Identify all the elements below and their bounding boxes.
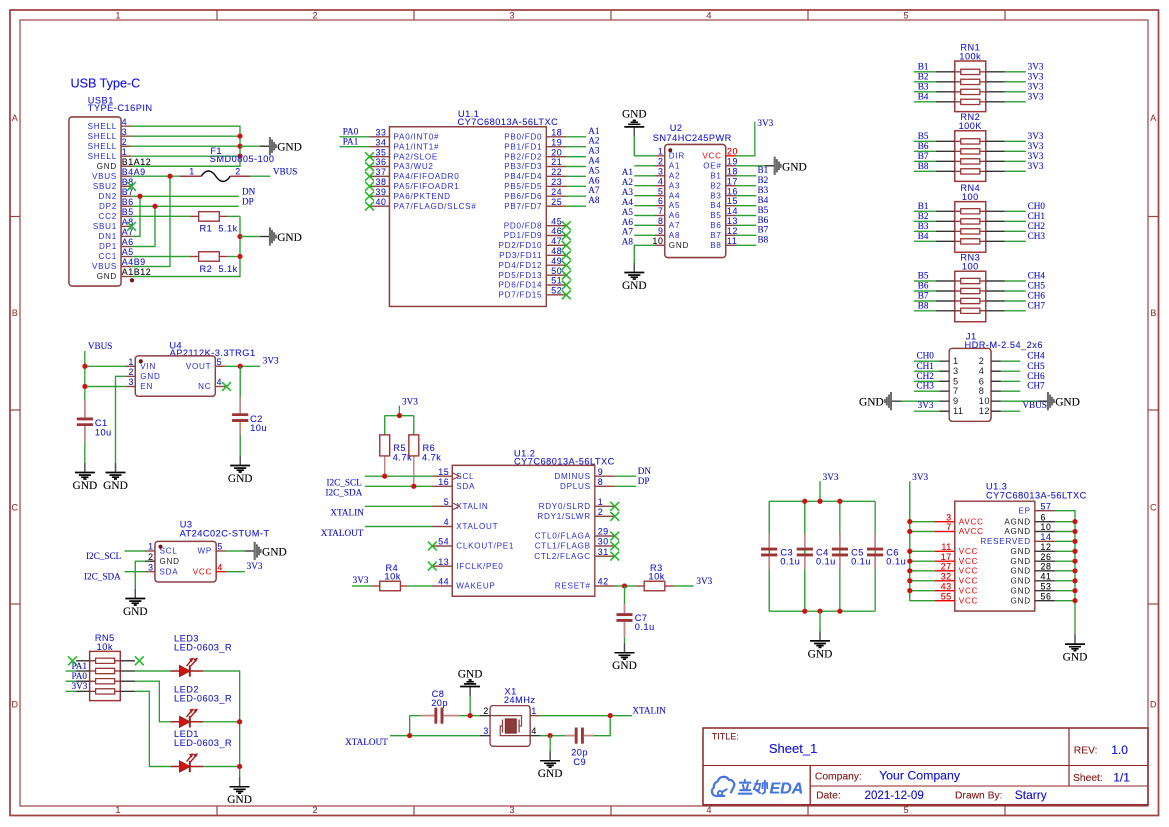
net label 3V3 bbox=[1028, 72, 1044, 82]
svg-text:3V3: 3V3 bbox=[402, 396, 418, 406]
svg-text:52: 52 bbox=[551, 286, 562, 296]
svg-text:Your Company: Your Company bbox=[879, 769, 961, 783]
svg-text:XTALIN: XTALIN bbox=[456, 502, 488, 511]
svg-text:Drawn By:: Drawn By: bbox=[955, 791, 1003, 802]
resistor R1 5.1k (CC2 pulldown) bbox=[131, 212, 240, 234]
svg-text:XTALIN: XTALIN bbox=[632, 705, 666, 715]
svg-text:A7: A7 bbox=[122, 227, 134, 237]
net label 3V3 bbox=[1028, 82, 1044, 92]
wire CH2 into J1 bbox=[914, 380, 939, 382]
header J1 HDR-M-2.54_2x6 bbox=[939, 332, 1043, 422]
svg-text:43: 43 bbox=[941, 581, 952, 591]
svg-text:VBUS: VBUS bbox=[273, 167, 298, 177]
svg-text:5: 5 bbox=[217, 357, 223, 367]
svg-text:B3: B3 bbox=[918, 82, 929, 92]
net label 3V3 bbox=[1028, 141, 1044, 151]
svg-text:PD3/FD11: PD3/FD11 bbox=[499, 251, 542, 260]
net label B8 bbox=[918, 300, 929, 310]
svg-text:A3: A3 bbox=[622, 187, 634, 197]
svg-text:20p: 20p bbox=[571, 747, 588, 757]
svg-text:29: 29 bbox=[598, 527, 609, 537]
net label B4 bbox=[918, 231, 929, 241]
svg-text:PA1: PA1 bbox=[72, 661, 88, 671]
wire I2C_SDA into U3 bbox=[125, 571, 146, 573]
no-connect marks U1.2 left bbox=[428, 542, 437, 571]
ic U4 AP2112K-3.3TRG1 bbox=[126, 340, 256, 396]
ground flag GND at J1 left bbox=[859, 392, 901, 410]
svg-text:A6: A6 bbox=[622, 217, 634, 227]
svg-text:GND: GND bbox=[622, 109, 647, 121]
svg-text:DN: DN bbox=[242, 186, 256, 196]
svg-text:CY7C68013A-56LTXC: CY7C68013A-56LTXC bbox=[458, 117, 559, 127]
wire CH0 into J1 bbox=[914, 360, 939, 362]
wire 3V3 from RN2 bbox=[1005, 150, 1026, 152]
svg-text:PB6/FD6: PB6/FD6 bbox=[504, 192, 542, 201]
wire LED cathodes to ground trunk bbox=[203, 671, 240, 777]
svg-text:B5: B5 bbox=[918, 131, 929, 141]
svg-text:10: 10 bbox=[979, 396, 990, 406]
wire 3V3 from RN2 bbox=[1005, 140, 1026, 142]
wire RN5 row4 to LED1 bbox=[135, 691, 171, 766]
junction dots on R trunk bbox=[238, 234, 243, 259]
svg-text:VBUS: VBUS bbox=[88, 341, 113, 351]
svg-text:5: 5 bbox=[444, 497, 450, 507]
svg-text:24MHz: 24MHz bbox=[504, 695, 536, 705]
net label I2C_SDA at U1.2 bbox=[326, 488, 363, 498]
net label B8 bbox=[918, 161, 929, 171]
junction dot DN bbox=[138, 194, 143, 199]
svg-text:GND: GND bbox=[622, 280, 647, 292]
wire capacitor bank to ground bbox=[819, 611, 821, 631]
net label B1 bbox=[918, 201, 929, 211]
wire U3 WP to ground flag bbox=[226, 550, 245, 552]
wire B1 into RN1 bbox=[914, 71, 936, 73]
net label DN at U1.2 bbox=[638, 466, 652, 476]
svg-text:1: 1 bbox=[953, 356, 959, 366]
connector USB1 TYPE-C16PIN bbox=[69, 95, 153, 286]
svg-text:C: C bbox=[11, 503, 18, 513]
wire CH0 from RN4 bbox=[1005, 210, 1026, 212]
svg-text:15: 15 bbox=[727, 196, 738, 206]
net label XTALIN at crystal bbox=[632, 705, 666, 715]
svg-text:GND: GND bbox=[1011, 586, 1031, 595]
svg-text:8: 8 bbox=[658, 216, 664, 226]
wire GND to J1 pin 9 bbox=[901, 400, 939, 402]
net label PA0 bbox=[343, 127, 359, 137]
resistor R6 4.7k bbox=[409, 435, 441, 486]
net label PA0 at RN5 bbox=[72, 671, 88, 681]
net label I2C_SCL at U1.2 bbox=[327, 478, 363, 488]
svg-text:0.1u: 0.1u bbox=[635, 622, 655, 632]
svg-text:3V3: 3V3 bbox=[247, 561, 263, 571]
svg-text:56: 56 bbox=[1041, 591, 1052, 601]
wire CH7 from RN3 bbox=[1005, 310, 1026, 312]
EasyEDA logo bbox=[712, 777, 803, 798]
svg-text:1: 1 bbox=[189, 166, 195, 176]
net label B2 bbox=[918, 211, 929, 221]
wire VBUS from J1 pin 12 bbox=[1001, 410, 1020, 412]
net label B6 bbox=[918, 141, 929, 151]
net label 3V3 at J1 left bbox=[918, 400, 934, 410]
ground flag GND (CC pulldowns) bbox=[240, 227, 302, 245]
wire crystal pin4 to C9 and ground bbox=[540, 735, 566, 737]
svg-text:B3: B3 bbox=[758, 185, 769, 195]
svg-text:8: 8 bbox=[979, 386, 985, 396]
power label 3V3 at R3 bbox=[696, 576, 712, 586]
svg-text:18: 18 bbox=[727, 167, 738, 177]
svg-text:3V3: 3V3 bbox=[1028, 82, 1044, 92]
wire B7 into RN2 bbox=[914, 160, 936, 162]
ground symbol below capacitor bank bbox=[808, 631, 833, 660]
wire B5 into RN2 bbox=[914, 140, 936, 142]
svg-text:Company:: Company: bbox=[815, 771, 862, 782]
junction dot 3V3 R5R6 bbox=[397, 413, 402, 418]
svg-text:5: 5 bbox=[658, 186, 664, 196]
wire CH0 into J1 bbox=[914, 360, 939, 362]
ground flag GND at U3 WP bbox=[245, 542, 287, 560]
ground symbol below C2 bbox=[228, 456, 253, 485]
net label B4 bbox=[918, 231, 929, 241]
capacitor C2 10u bbox=[232, 366, 267, 435]
svg-text:100: 100 bbox=[962, 192, 979, 202]
svg-text:TITLE:: TITLE: bbox=[712, 731, 739, 741]
wire B6 into RN2 bbox=[914, 150, 936, 152]
svg-text:DP: DP bbox=[638, 476, 650, 486]
svg-text:2: 2 bbox=[483, 706, 489, 716]
wire DN from U1.2 DMINUS bbox=[615, 475, 636, 477]
net label DP bbox=[242, 196, 254, 206]
ground flag GND (USB shell) bbox=[240, 137, 302, 155]
net label CH6 bbox=[1028, 291, 1046, 301]
svg-text:15: 15 bbox=[438, 467, 449, 477]
ground symbol below C1 bbox=[73, 463, 98, 492]
svg-text:A6: A6 bbox=[122, 237, 134, 247]
wire I2C_SDA net with R6 bbox=[365, 485, 432, 487]
capacitor C3 0.1u bbox=[761, 534, 800, 570]
net label CH4 bbox=[1028, 271, 1046, 281]
net label VBUS at J1 bbox=[1022, 400, 1047, 410]
svg-text:CH7: CH7 bbox=[1028, 300, 1046, 310]
svg-text:CLKOUT/PE1: CLKOUT/PE1 bbox=[456, 542, 514, 551]
svg-text:CH4: CH4 bbox=[1027, 351, 1045, 361]
wire B8 into RN3 bbox=[914, 310, 936, 312]
net label 3V3 at RN5 bbox=[72, 681, 88, 691]
junction dot XTALOUT bbox=[407, 733, 412, 738]
junction dots on shell trunk bbox=[238, 134, 243, 159]
no-connect marks on U1.1 PA2-PA7 bbox=[365, 152, 374, 210]
ground symbol below C1 bbox=[73, 463, 98, 492]
svg-text:VCC: VCC bbox=[959, 577, 978, 586]
svg-text:EN: EN bbox=[140, 382, 153, 391]
ic U1.2 CY7C68013A-56LTXC (control block) bbox=[432, 448, 615, 596]
svg-text:3V3: 3V3 bbox=[696, 576, 712, 586]
wire PA1 into U1.1 bbox=[340, 146, 370, 148]
wire U2 DIR to ground bbox=[634, 136, 655, 156]
crystal X1 24MHz bbox=[480, 686, 540, 746]
wire XTALOUT into U1.2 bbox=[365, 526, 432, 528]
svg-text:1: 1 bbox=[531, 706, 537, 716]
ground symbol below U2 GND bbox=[622, 263, 647, 292]
wire B3 into RN4 bbox=[914, 230, 936, 232]
svg-text:EDA: EDA bbox=[770, 780, 804, 797]
svg-text:PA6/PKTEND: PA6/PKTEND bbox=[394, 192, 451, 201]
net label B7 bbox=[918, 291, 929, 301]
svg-text:12: 12 bbox=[979, 406, 990, 416]
svg-text:DIR: DIR bbox=[669, 152, 685, 161]
net label B7 bbox=[918, 151, 929, 161]
wire C2 to ground bbox=[239, 435, 241, 456]
svg-text:B6: B6 bbox=[918, 141, 929, 151]
wire B2 into RN4 bbox=[914, 220, 936, 222]
connector USB1 TYPE-C16PIN bbox=[69, 95, 153, 286]
svg-text:3: 3 bbox=[509, 10, 514, 20]
wire B2 into RN1 bbox=[914, 81, 936, 83]
junction dots on VBUS rail bbox=[82, 364, 87, 389]
svg-text:A1B12: A1B12 bbox=[122, 267, 151, 277]
svg-text:PA5/FIFOADR1: PA5/FIFOADR1 bbox=[394, 182, 460, 191]
svg-text:GND: GND bbox=[859, 397, 884, 409]
svg-text:3V3: 3V3 bbox=[353, 575, 369, 585]
svg-text:RESERVED: RESERVED bbox=[980, 537, 1030, 546]
svg-text:10k: 10k bbox=[97, 642, 113, 652]
wire 3V3 to J1 pin 11 bbox=[914, 410, 939, 412]
net label B3 bbox=[918, 221, 929, 231]
svg-text:A: A bbox=[1150, 113, 1156, 123]
net label CH7 bbox=[1028, 300, 1046, 310]
svg-text:7: 7 bbox=[658, 206, 664, 216]
wire GND net: R1/R2 trunk to USB1 A1B12 bbox=[131, 166, 240, 276]
svg-text:CH4: CH4 bbox=[1028, 271, 1046, 281]
net label CH1 bbox=[1028, 211, 1046, 221]
svg-text:4.7k: 4.7k bbox=[422, 452, 441, 462]
wire GND net: USB1 shell pins to trunk bbox=[131, 126, 240, 166]
svg-text:10k: 10k bbox=[649, 572, 665, 582]
svg-text:GND: GND bbox=[1011, 547, 1031, 556]
wire CH5 from RN3 bbox=[1005, 290, 1026, 292]
svg-text:CC2: CC2 bbox=[99, 212, 117, 221]
wire U2 GND pin to ground bbox=[634, 245, 655, 263]
junction dots capacitor bank top bbox=[802, 499, 842, 504]
svg-text:B4: B4 bbox=[918, 92, 929, 102]
svg-text:PA0: PA0 bbox=[72, 671, 88, 681]
svg-text:2: 2 bbox=[148, 552, 154, 562]
svg-text:3V3: 3V3 bbox=[1028, 151, 1044, 161]
svg-text:1.0: 1.0 bbox=[1111, 743, 1128, 757]
net label B5 bbox=[918, 271, 929, 281]
svg-text:11: 11 bbox=[727, 236, 737, 246]
svg-text:1: 1 bbox=[598, 497, 604, 507]
resistor R4 10k on WAKEUP bbox=[352, 563, 432, 591]
resistor network RN1 100k bbox=[936, 42, 1005, 111]
svg-text:GND: GND bbox=[97, 272, 117, 281]
svg-text:5: 5 bbox=[903, 10, 908, 20]
net label CH0 at J1 bbox=[917, 351, 935, 361]
net label B7 bbox=[918, 291, 929, 301]
wire capacitor bank to ground bbox=[819, 611, 821, 631]
svg-text:I2C_SDA: I2C_SDA bbox=[84, 571, 121, 581]
svg-text:GND: GND bbox=[97, 162, 117, 171]
svg-text:PB0/FD0: PB0/FD0 bbox=[504, 133, 542, 142]
no-connect marks U1.2 right bbox=[610, 502, 619, 561]
svg-text:40: 40 bbox=[376, 197, 387, 207]
svg-text:GND: GND bbox=[277, 232, 302, 244]
ic U2 SN74HC245PWR bbox=[653, 123, 739, 257]
svg-text:2: 2 bbox=[312, 10, 317, 20]
svg-text:A2: A2 bbox=[622, 177, 634, 187]
no-connect marks RN5 row1 bbox=[68, 656, 144, 665]
wire I2C_SDA net with R6 bbox=[365, 485, 432, 487]
svg-text:3V3: 3V3 bbox=[823, 472, 839, 482]
LED LED3 LED-0603_R bbox=[171, 634, 233, 677]
fuse F1 SMD0805-100 bbox=[180, 146, 274, 182]
svg-text:42: 42 bbox=[598, 577, 609, 587]
svg-text:PD5/FD13: PD5/FD13 bbox=[499, 271, 543, 280]
wire GND net: USB1 shell pins to trunk bbox=[131, 126, 240, 166]
svg-text:CH3: CH3 bbox=[917, 381, 935, 391]
wire B8 into RN2 bbox=[914, 170, 936, 172]
net label CH0 bbox=[1028, 201, 1046, 211]
svg-text:AGND: AGND bbox=[1004, 517, 1030, 526]
svg-text:32: 32 bbox=[941, 572, 952, 582]
svg-text:SBU2: SBU2 bbox=[93, 182, 117, 191]
wire CH3 into J1 bbox=[914, 390, 939, 392]
wire 3V3 from RN1 bbox=[1005, 71, 1026, 73]
svg-text:3V3: 3V3 bbox=[263, 356, 279, 366]
svg-text:3: 3 bbox=[122, 127, 128, 137]
junction dots capacitor bank top bbox=[802, 499, 842, 504]
ic U3 AT24C02C-STUM-T bbox=[145, 520, 270, 582]
capacitor C1 10u bbox=[77, 400, 112, 441]
junction dots on U1.3 3V3 rail bbox=[907, 519, 912, 593]
capacitor C5 0.1u bbox=[832, 534, 871, 570]
net label CH3 at J1 bbox=[917, 381, 935, 391]
svg-text:GND: GND bbox=[1063, 652, 1088, 664]
svg-text:35: 35 bbox=[376, 147, 387, 157]
no-connect on U4 NC bbox=[222, 382, 231, 391]
svg-text:RESET#: RESET# bbox=[555, 582, 591, 591]
wire 3V3 from RN1 bbox=[1005, 101, 1026, 103]
svg-text:A6: A6 bbox=[588, 175, 600, 185]
wire 3V3 into RN5 bbox=[66, 690, 77, 692]
svg-text:B7: B7 bbox=[122, 187, 134, 197]
no-connect on USB1 SBU1 bbox=[127, 222, 136, 231]
svg-text:7: 7 bbox=[946, 522, 952, 532]
LED LED2 LED-0603_R bbox=[171, 684, 233, 727]
wire B2 into RN4 bbox=[914, 220, 936, 222]
svg-text:GND: GND bbox=[782, 161, 807, 173]
net label CH2 at J1 bbox=[917, 371, 935, 381]
ground symbol below crystal bbox=[538, 751, 563, 780]
svg-text:PD7/FD15: PD7/FD15 bbox=[499, 291, 543, 300]
net label DN at U1.2 bbox=[638, 466, 652, 476]
power flag VBUS at U4 bbox=[88, 341, 113, 351]
svg-text:9: 9 bbox=[953, 396, 959, 406]
wire 3V3 from RN2 bbox=[1005, 160, 1026, 162]
svg-text:C9: C9 bbox=[573, 757, 586, 767]
net label DP at U1.2 bbox=[638, 476, 650, 486]
svg-text:1: 1 bbox=[658, 147, 664, 157]
svg-text:10k: 10k bbox=[385, 572, 401, 582]
wire I2C_SCL into U3 bbox=[125, 550, 146, 552]
section label USB Type-C bbox=[71, 77, 141, 91]
svg-text:B7: B7 bbox=[918, 151, 929, 161]
svg-text:B1: B1 bbox=[918, 62, 929, 72]
wire PA1 into RN5 bbox=[66, 670, 77, 672]
svg-text:DN: DN bbox=[638, 466, 652, 476]
wire VBUS net from USB1 B4A9 through fuse bbox=[131, 176, 270, 266]
ic U4 AP2112K-3.3TRG1 bbox=[126, 340, 256, 396]
capacitor C5 0.1u bbox=[832, 534, 871, 570]
resistor network RN4 100 bbox=[936, 183, 1005, 252]
svg-text:47: 47 bbox=[551, 236, 562, 246]
svg-text:CTL2/FLAGC: CTL2/FLAGC bbox=[534, 552, 591, 561]
wire 3V3 to R5/R6 tops bbox=[385, 406, 414, 435]
svg-text:WP: WP bbox=[198, 547, 213, 556]
wire DP net from USB1 DP2 bbox=[131, 206, 239, 246]
svg-text:20p: 20p bbox=[431, 698, 448, 708]
svg-text:1: 1 bbox=[122, 147, 128, 157]
svg-text:B4: B4 bbox=[758, 195, 769, 205]
svg-text:DN1: DN1 bbox=[99, 232, 117, 241]
wire I2C_SCL net with R5 bbox=[365, 475, 432, 477]
svg-text:SHELL: SHELL bbox=[88, 122, 117, 131]
power label 3V3 at U4 VOUT bbox=[263, 356, 279, 366]
wire CH3 into J1 bbox=[914, 390, 939, 392]
svg-text:VBUS: VBUS bbox=[92, 172, 117, 181]
junction dots on LED ground trunk bbox=[237, 719, 242, 769]
net label 3V3 bbox=[1028, 161, 1044, 171]
svg-text:10: 10 bbox=[1041, 522, 1052, 532]
wire XTALOUT net: C8 branch and crystal pin3 bbox=[390, 716, 480, 736]
no-connect marks U1.2 left bbox=[428, 542, 437, 571]
wire RN5 row2 to LED3 bbox=[135, 670, 171, 672]
ground symbol below U1.3 bbox=[1063, 635, 1088, 664]
svg-text:3V3: 3V3 bbox=[72, 681, 88, 691]
resistor network RN4 100 bbox=[936, 183, 1005, 252]
svg-text:D: D bbox=[1150, 700, 1157, 710]
net label B1 bbox=[918, 62, 929, 72]
ground flag GND (CC pulldowns) bbox=[240, 227, 302, 245]
wire 3V3 from RN1 bbox=[1005, 71, 1026, 73]
svg-text:CH1: CH1 bbox=[1028, 211, 1046, 221]
svg-text:DP1: DP1 bbox=[99, 242, 117, 251]
net label CH0 bbox=[1028, 201, 1046, 211]
power flag 3V3 at capacitor bank bbox=[823, 472, 839, 482]
resistor R6 4.7k bbox=[409, 435, 441, 486]
net label B8 bbox=[918, 161, 929, 171]
svg-text:IFCLK/PE0: IFCLK/PE0 bbox=[456, 562, 503, 571]
svg-text:CH3: CH3 bbox=[1028, 231, 1046, 241]
svg-text:5: 5 bbox=[953, 376, 959, 386]
svg-text:VOUT: VOUT bbox=[186, 362, 211, 371]
wire VBUS rail into U4 VIN/EN and C1 bbox=[85, 351, 126, 400]
svg-text:CH1: CH1 bbox=[917, 361, 935, 371]
svg-text:14: 14 bbox=[727, 206, 738, 216]
net label CH4 at J1 bbox=[1027, 351, 1045, 361]
svg-text:EP: EP bbox=[1018, 506, 1030, 515]
ground symbol below U3 bbox=[123, 589, 148, 618]
svg-text:20: 20 bbox=[551, 147, 562, 157]
svg-text:54: 54 bbox=[438, 537, 449, 547]
crystal X1 24MHz bbox=[480, 686, 540, 746]
svg-text:25: 25 bbox=[551, 197, 562, 207]
power label 3V3 at U3 VCC bbox=[247, 561, 263, 571]
svg-text:PA2/SLOE: PA2/SLOE bbox=[394, 152, 439, 161]
svg-text:I2C_SCL: I2C_SCL bbox=[86, 551, 122, 561]
net label CH7 at J1 bbox=[1027, 381, 1045, 391]
wire B1 into RN1 bbox=[914, 71, 936, 73]
header J1 HDR-M-2.54_2x6 bbox=[939, 332, 1043, 422]
